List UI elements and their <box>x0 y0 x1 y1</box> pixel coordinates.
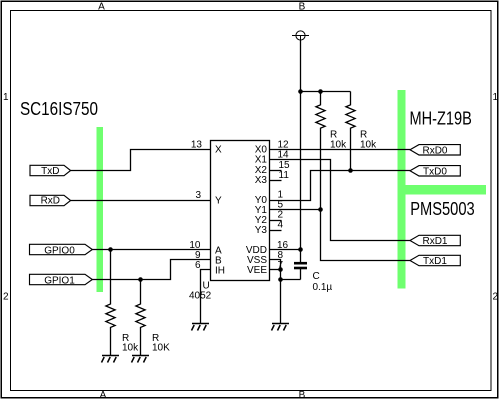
wire ground rail down <box>280 280 282 324</box>
svg-text:7: 7 <box>278 260 284 271</box>
resistor R3 10k (GPIO0 pulldown) <box>106 250 115 356</box>
svg-text:SC16IS750: SC16IS750 <box>20 99 98 119</box>
svg-text:A: A <box>100 390 107 400</box>
junction node R2 bottom / TxD0 <box>348 168 353 173</box>
wire pin Y0 to TxD0 flag <box>270 171 411 201</box>
highlighter bar left (SC16IS750 zone) <box>97 127 104 292</box>
pin X2 stub <box>270 170 282 172</box>
pin Y3 stub <box>270 230 282 232</box>
resistor R4 10K (GPIO1 pulldown) <box>136 280 145 356</box>
svg-text:RxD1: RxD1 <box>422 236 447 247</box>
svg-text:B: B <box>299 2 306 13</box>
flag RxD1 <box>410 235 460 245</box>
resistor R1 10k (pullup TxD1 net) <box>316 92 325 210</box>
svg-text:10K: 10K <box>152 343 170 354</box>
power symbol VCC <box>292 31 309 42</box>
pin X3 stub <box>270 180 282 182</box>
wire VCC vertical to VDD <box>300 40 302 250</box>
svg-text:10k: 10k <box>122 343 139 354</box>
svg-text:X: X <box>215 145 222 156</box>
svg-text:6: 6 <box>195 260 201 271</box>
svg-text:4052: 4052 <box>189 290 212 301</box>
svg-text:RxD: RxD <box>41 196 60 207</box>
svg-text:14: 14 <box>278 150 290 161</box>
svg-text:A: A <box>98 2 105 13</box>
svg-text:RxD0: RxD0 <box>422 146 447 157</box>
svg-text:10k: 10k <box>330 140 347 151</box>
wire VDD pin 16 <box>270 249 301 251</box>
junction node R1 bottom / Y1 <box>318 207 323 212</box>
junction node cap bottom rail <box>278 277 283 282</box>
svg-text:10k: 10k <box>360 140 377 151</box>
svg-text:X1: X1 <box>255 155 268 166</box>
wire VSS pin 8 to ground rail <box>270 260 281 280</box>
svg-text:11: 11 <box>279 170 290 181</box>
wire pin X1 to RxD1 flag <box>270 160 411 241</box>
svg-text:1: 1 <box>493 92 499 103</box>
wire pin Y 3 from RxD <box>71 200 211 202</box>
wire pin IH 6 to ground <box>201 270 211 324</box>
wire pullup rail horizontal <box>301 91 351 93</box>
flag GPIO0 <box>30 244 93 254</box>
junction node VEE rail <box>278 267 283 272</box>
svg-text:0.1µ: 0.1µ <box>313 282 333 293</box>
svg-text:1: 1 <box>3 92 9 103</box>
capacitor C 0.1u <box>294 250 307 280</box>
svg-text:13: 13 <box>191 140 203 151</box>
pin Y2 stub <box>270 220 282 222</box>
svg-text:GPIO0: GPIO0 <box>44 246 75 257</box>
svg-text:TxD: TxD <box>41 166 59 177</box>
svg-text:GPIO1: GPIO1 <box>44 276 75 287</box>
flag TxD1 <box>410 255 460 265</box>
ground symbol under R4 <box>132 356 150 363</box>
wire pin Y1 to TxD1 flag <box>270 210 411 261</box>
junction node VCC rail left <box>298 89 303 94</box>
junction node VDD/cap <box>298 247 303 252</box>
flag RxD0 <box>410 145 460 155</box>
svg-text:MH-Z19B: MH-Z19B <box>410 109 472 129</box>
svg-text:B: B <box>299 390 306 400</box>
ground symbol under IH <box>192 324 210 331</box>
IC U 4052 body <box>211 141 270 281</box>
svg-text:IH: IH <box>215 266 225 277</box>
wire pin A 10 from GPIO0 <box>92 249 211 251</box>
svg-text:3: 3 <box>195 190 201 201</box>
wire pin B 9 from GPIO1 <box>92 260 211 280</box>
highlighter bar right vertical (MH-Z19B / PMS5003 zone) <box>398 90 406 289</box>
svg-text:TxD1: TxD1 <box>423 256 447 267</box>
ground symbol under C / VSS rail <box>272 324 290 331</box>
junction node R1 top <box>318 89 323 94</box>
svg-text:4: 4 <box>278 220 284 231</box>
flag TxD0 <box>410 166 460 176</box>
highlighter bar right horizontal <box>398 185 487 195</box>
svg-text:PMS5003: PMS5003 <box>410 199 475 219</box>
wire pin X0 to RxD0 flag <box>270 149 411 151</box>
flag RxD <box>30 195 71 205</box>
svg-text:Y3: Y3 <box>255 225 268 236</box>
wire pin X 13 from TxD <box>71 150 211 171</box>
ground symbol under R3 <box>102 356 120 363</box>
junction node GPIO0/R3 <box>108 247 113 252</box>
svg-text:2: 2 <box>493 292 499 303</box>
svg-text:VEE: VEE <box>247 265 267 276</box>
svg-text:X3: X3 <box>255 175 268 186</box>
svg-text:C: C <box>313 271 320 282</box>
junction node GPIO1/R4 <box>138 277 143 282</box>
flag GPIO1 <box>30 274 93 284</box>
svg-text:2: 2 <box>3 292 9 303</box>
wire VEE pin 7 <box>270 269 281 271</box>
svg-text:TxD0: TxD0 <box>423 167 447 178</box>
wire capacitor bottom to ground rail <box>281 279 301 281</box>
svg-text:Y: Y <box>215 196 222 207</box>
resistor R2 10k (pullup TxD0 net) <box>346 92 355 171</box>
flag TxD <box>30 165 71 175</box>
